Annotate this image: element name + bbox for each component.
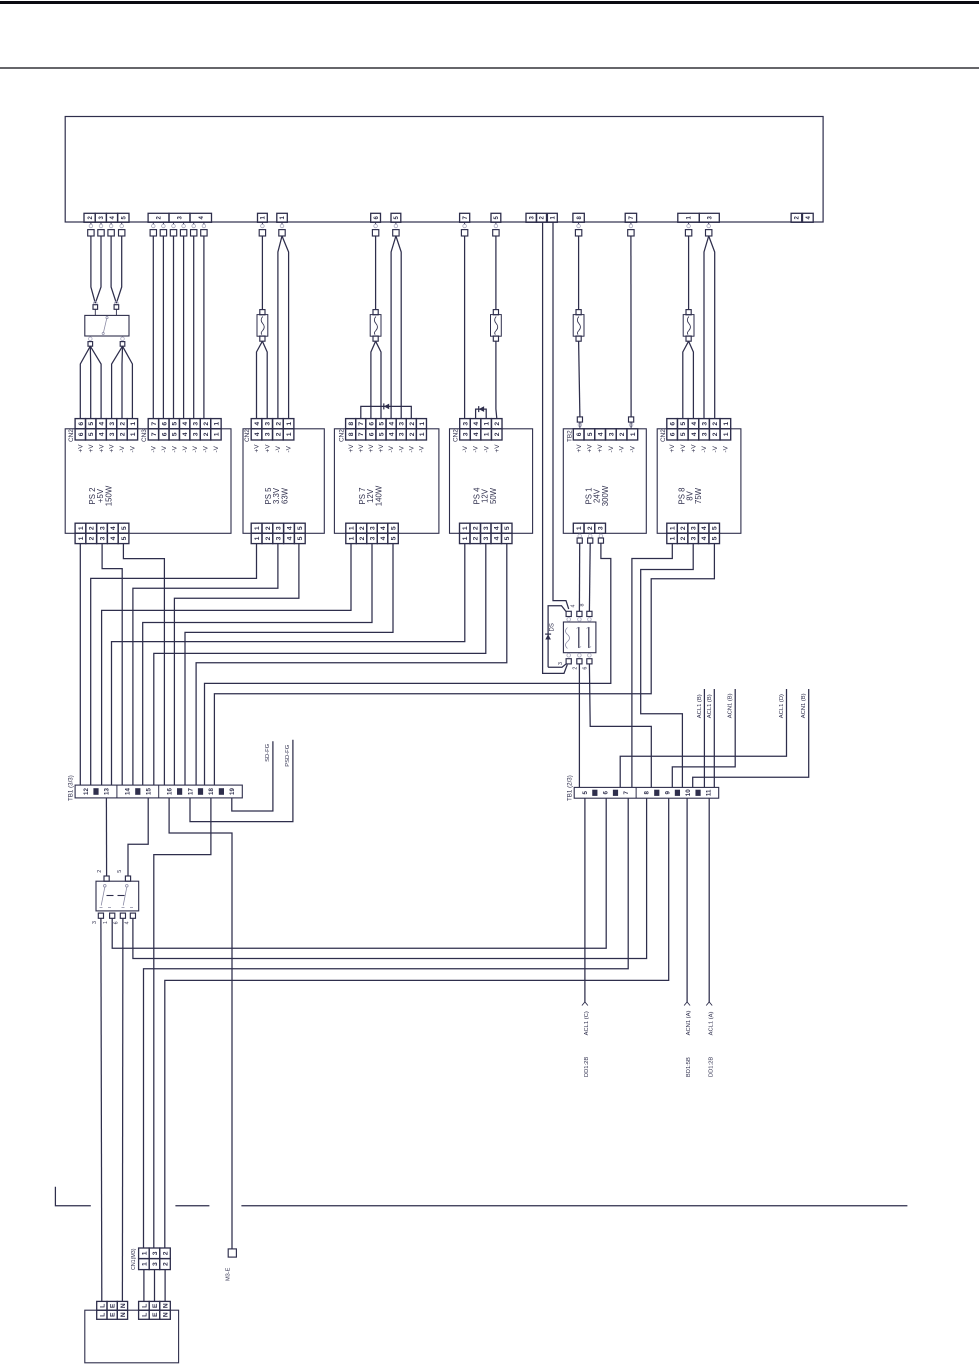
wire relay K1 to TB1 terminal 8	[589, 664, 651, 788]
PS7 output connector	[346, 523, 357, 533]
svg-text:+V: +V	[98, 444, 105, 453]
wire fuse F1 to PS1 TB2 pin 6	[579, 341, 580, 417]
svg-text:-V: -V	[608, 445, 615, 452]
connector CN1(M3)	[139, 1248, 150, 1259]
svg-text:13: 13	[104, 788, 111, 795]
svg-text:SD-FG: SD-FG	[265, 743, 271, 762]
svg-text:3: 3	[558, 662, 564, 665]
svg-text:2: 2	[89, 526, 96, 530]
wire TB1 terminal 16 to connector M3-E	[169, 798, 232, 1249]
switch S1	[96, 881, 139, 911]
relay DS	[563, 622, 596, 653]
svg-text:ACL1 (B): ACL1 (B)	[697, 694, 703, 718]
wire switch S1 pin 1 to TB1 terminal 6	[112, 798, 606, 948]
svg-text:4: 4	[99, 432, 106, 436]
svg-text:11: 11	[706, 789, 713, 796]
svg-text:-V: -V	[203, 445, 210, 452]
svg-text:2: 2	[473, 526, 480, 530]
svg-text:4: 4	[701, 536, 708, 540]
svg-text:2: 2	[275, 422, 282, 426]
svg-text:6: 6	[161, 432, 168, 436]
PS4 connector CN2	[460, 419, 471, 429]
svg-text:3: 3	[369, 536, 376, 540]
svg-text:1: 1	[670, 536, 677, 540]
svg-text:5: 5	[378, 432, 385, 436]
svg-text:9: 9	[664, 791, 671, 795]
relay DS bottom pins	[567, 654, 571, 658]
svg-text:-V: -V	[151, 445, 158, 452]
svg-text:+V: +V	[88, 444, 95, 453]
svg-text:3: 3	[691, 526, 698, 530]
svg-text:4: 4	[389, 432, 396, 436]
svg-text:CN2: CN2	[244, 429, 251, 442]
fuse F4	[493, 310, 498, 315]
svg-text:L: L	[99, 1313, 106, 1317]
svg-text:-V: -V	[408, 445, 415, 452]
svg-text:CN3: CN3	[141, 429, 148, 442]
wire PS4 pin5 to TB1 terminal 17	[196, 544, 507, 786]
wire fuse F3 to PS7 CN2 +V	[371, 341, 376, 418]
svg-text:6: 6	[602, 791, 609, 795]
power supply PS 2	[65, 429, 231, 534]
svg-text:6: 6	[670, 432, 677, 436]
svg-text:-V: -V	[473, 445, 480, 452]
svg-text:6: 6	[576, 432, 583, 436]
net stub ACN1 (B) third	[693, 689, 809, 787]
svg-text:1: 1	[78, 526, 85, 530]
wire TB1 terminal 13 to switch S1 pin 2	[105, 798, 107, 876]
svg-text:2: 2	[275, 432, 282, 436]
svg-text:M3-E: M3-E	[226, 1267, 232, 1281]
wire PS1 pin3 to TB1 terminal 18	[205, 543, 611, 785]
svg-text:-V: -V	[619, 445, 626, 452]
svg-text:4: 4	[389, 422, 396, 426]
svg-text:+V: +V	[680, 444, 687, 453]
wire twisted pair to PS8 CN2 -V	[704, 236, 709, 419]
svg-text:-V: -V	[182, 445, 189, 452]
svg-text:2: 2	[162, 1251, 169, 1255]
svg-text:5: 5	[712, 536, 719, 540]
svg-text:4: 4	[124, 921, 130, 924]
svg-text:3: 3	[152, 1251, 159, 1255]
svg-text:-V: -V	[712, 445, 719, 452]
svg-text:ACL1 (C): ACL1 (C)	[584, 1011, 590, 1035]
wire J1 pin 2 to relay K1 coil return	[543, 222, 568, 673]
wire J1 pin 1 to fuse F5	[688, 236, 690, 310]
svg-text:+V: +V	[691, 444, 698, 453]
svg-text:3: 3	[702, 422, 709, 426]
svg-text:CN2: CN2	[453, 429, 460, 442]
svg-text:1: 1	[348, 536, 355, 540]
wire J1 pin 7 to PS1 TB2 pin 1	[630, 236, 632, 417]
power supply PS 1	[563, 429, 646, 534]
svg-text:E: E	[152, 1312, 159, 1317]
svg-text:4: 4	[473, 422, 480, 426]
svg-text:4: 4	[182, 422, 189, 426]
wire J1 pin 1 to fuse F2	[261, 236, 263, 310]
svg-text:ACN1 (B): ACN1 (B)	[801, 693, 807, 718]
page header rule thick	[0, 1, 979, 4]
svg-text:18: 18	[208, 788, 215, 795]
switch S1 top pins	[104, 876, 109, 881]
svg-text:2: 2	[203, 432, 210, 436]
backplane connector J1 pin boxes	[84, 213, 813, 222]
wire CN1 to AC outlet 2	[143, 1270, 145, 1302]
wire TB1 terminal 18 junction	[154, 798, 211, 1248]
svg-text:1: 1	[130, 432, 137, 436]
svg-text:1: 1	[484, 432, 491, 436]
svg-text:-V: -V	[419, 445, 426, 452]
svg-text:1: 1	[130, 422, 137, 426]
wire PS1 pin1 to relay K1	[578, 543, 580, 611]
svg-text:3: 3	[483, 526, 490, 530]
svg-text:CN2: CN2	[68, 429, 75, 442]
PS1 terminal block TB2	[573, 429, 584, 440]
svg-text:2: 2	[162, 1262, 169, 1266]
svg-text:-V: -V	[462, 445, 469, 452]
svg-text:1: 1	[723, 422, 730, 426]
AC outlet 2 terminals L E N	[139, 1301, 150, 1310]
svg-text:16: 16	[166, 788, 173, 795]
svg-text:6: 6	[670, 422, 677, 426]
relay coil suppression diode loop	[548, 606, 566, 667]
svg-text:+V: +V	[669, 444, 676, 453]
svg-text:3: 3	[152, 1262, 159, 1266]
svg-text:2: 2	[265, 526, 272, 530]
net stub ACL1 (B) second	[713, 689, 715, 787]
PS5 output connector	[251, 523, 262, 533]
power supply PS 5	[243, 429, 324, 534]
PS7 connector CN2	[346, 419, 356, 429]
crimp splice terminals above filter	[94, 301, 98, 305]
svg-text:1: 1	[670, 526, 677, 530]
svg-text:ACL1 (D): ACL1 (D)	[779, 694, 785, 718]
svg-text:2: 2	[409, 432, 416, 436]
svg-text:TB1 (2/3): TB1 (2/3)	[567, 775, 574, 801]
svg-text:6: 6	[78, 422, 85, 426]
svg-text:1: 1	[348, 526, 355, 530]
svg-text:+V: +V	[586, 444, 593, 453]
wire TB1 terminal 10 to ACN1 (A)	[686, 798, 688, 1002]
svg-text:1: 1	[286, 432, 293, 436]
svg-text:4: 4	[691, 432, 698, 436]
svg-text:-V: -V	[629, 445, 636, 452]
PS4 output connector	[460, 523, 471, 533]
wire J1 pin 1 to relay K1 coil	[553, 222, 569, 609]
svg-text:L: L	[99, 1304, 106, 1308]
wire twisted pair to PS7 CN2 -V	[391, 236, 396, 419]
wire twisted pair to PS5 CN2 -V	[278, 236, 282, 419]
fuse F5	[686, 310, 691, 315]
svg-text:1: 1	[419, 432, 426, 436]
svg-text:3: 3	[193, 422, 200, 426]
fuse F3	[373, 310, 378, 315]
svg-text:4: 4	[110, 536, 117, 540]
svg-text:4: 4	[701, 526, 708, 530]
wire J1 pin 6 to fuse F3	[375, 236, 377, 310]
wire PS8 pin3 to TB1 terminal 10	[641, 543, 694, 787]
svg-text:2: 2	[712, 432, 719, 436]
svg-text:2: 2	[494, 432, 501, 436]
fuse F2	[260, 310, 265, 315]
svg-text:1: 1	[419, 422, 426, 426]
svg-text:5: 5	[680, 422, 687, 426]
svg-text:3: 3	[276, 526, 283, 530]
svg-text:2: 2	[265, 536, 272, 540]
svg-text:5: 5	[172, 422, 179, 426]
svg-text:ACL1 (A): ACL1 (A)	[708, 1011, 714, 1035]
svg-text:1: 1	[103, 921, 109, 924]
svg-text:N: N	[162, 1312, 169, 1317]
svg-text:ACN1 (B): ACN1 (B)	[728, 693, 734, 718]
svg-text:3: 3	[399, 422, 406, 426]
wire PS7 pin5 to TB1 terminal 17	[185, 544, 393, 786]
diode CR1	[545, 634, 551, 639]
svg-text:4: 4	[254, 422, 261, 426]
relay DS top pins	[566, 611, 571, 616]
page header rule thin	[0, 67, 979, 69]
svg-text:5: 5	[390, 536, 397, 540]
svg-text:2: 2	[89, 536, 96, 540]
svg-text:6: 6	[114, 921, 120, 924]
wire J1 pin 5 to fuse F4	[495, 236, 497, 310]
svg-text:3: 3	[276, 536, 283, 540]
svg-text:7: 7	[151, 432, 158, 436]
svg-text:1: 1	[213, 422, 220, 426]
svg-text:6: 6	[78, 432, 85, 436]
svg-text:2: 2	[119, 422, 126, 426]
wire CN1 pin 2 to TB1 terminal 9	[165, 798, 669, 1248]
svg-text:4: 4	[182, 432, 189, 436]
svg-text:3: 3	[462, 432, 469, 436]
svg-text:4: 4	[99, 422, 106, 426]
svg-text:-V: -V	[192, 445, 199, 452]
svg-text:-V: -V	[398, 445, 405, 452]
svg-text:5: 5	[390, 526, 397, 530]
power supply PS 7	[334, 429, 439, 534]
svg-text:DD1:2B: DD1:2B	[584, 1057, 590, 1077]
svg-text:-V: -V	[286, 445, 293, 452]
wire fuse F5 to PS8 CN2 +V	[683, 341, 689, 418]
svg-text:1: 1	[576, 526, 583, 530]
svg-text:150W: 150W	[104, 485, 113, 506]
jumper with diode across PS7 CN2 pins 7-2	[361, 406, 412, 418]
PS8 output connector	[667, 523, 678, 533]
svg-text:TB2: TB2	[566, 430, 573, 442]
svg-text:6: 6	[582, 667, 588, 670]
svg-text:4: 4	[286, 526, 293, 530]
wire J1 pin 8 to fuse F1	[578, 236, 580, 310]
net stub ACL1 (D)	[620, 689, 786, 787]
svg-text:2: 2	[97, 870, 103, 873]
svg-text:E: E	[110, 1303, 117, 1308]
svg-text:3: 3	[92, 921, 98, 924]
connector pin terminals	[88, 224, 712, 236]
svg-text:2: 2	[473, 536, 480, 540]
PS2 connector CN2	[75, 419, 85, 429]
svg-text:15: 15	[145, 788, 152, 795]
svg-text:1: 1	[141, 1251, 148, 1255]
wire J1 pins 2-5 to filter	[91, 236, 95, 303]
sheet divider line	[55, 1187, 90, 1206]
svg-text:4: 4	[110, 526, 117, 530]
svg-text:3: 3	[598, 526, 605, 530]
wire PS4 pin1 to TB1 terminal 13	[112, 544, 465, 786]
svg-text:DD1:2B: DD1:2B	[708, 1057, 714, 1077]
svg-text:-V: -V	[701, 445, 708, 452]
wire PS2 pin1 to TB1 terminal 12	[79, 544, 81, 786]
svg-text:17: 17	[187, 788, 194, 795]
wire J1 group to PS2 CN3	[152, 236, 154, 419]
svg-text:ACN1 (A): ACN1 (A)	[686, 1011, 692, 1036]
svg-text:BD1:5B: BD1:5B	[686, 1057, 692, 1077]
svg-text:7: 7	[358, 432, 365, 436]
svg-text:L: L	[141, 1304, 148, 1308]
svg-text:8: 8	[348, 422, 355, 426]
svg-text:2: 2	[119, 432, 126, 436]
svg-text:4: 4	[570, 605, 576, 608]
svg-text:CN1(M3): CN1(M3)	[131, 1248, 137, 1270]
svg-text:4: 4	[494, 536, 501, 540]
svg-text:4: 4	[691, 422, 698, 426]
PS1 output connector	[573, 523, 584, 533]
svg-text:L: L	[141, 1313, 148, 1317]
svg-text:-V: -V	[119, 445, 126, 452]
svg-text:CN2: CN2	[660, 429, 667, 442]
wire TB1 terminal 5 to ACL1 (C)	[584, 798, 586, 1002]
svg-text:+V: +V	[254, 444, 261, 453]
crimp splice terminals below filter	[89, 337, 93, 341]
svg-text:PSD-FG: PSD-FG	[285, 744, 291, 766]
svg-text:ACL1 (B): ACL1 (B)	[707, 694, 713, 718]
svg-text:5: 5	[172, 432, 179, 436]
svg-text:6: 6	[368, 422, 375, 426]
svg-text:+V: +V	[358, 444, 365, 453]
wire PS1 pin2 to relay K1	[588, 543, 591, 611]
PS8 connector CN2	[667, 419, 678, 429]
wire PS5 pin1 to TB1 terminal 12	[91, 544, 257, 786]
system unit outline	[65, 117, 823, 223]
svg-text:+V: +V	[494, 444, 501, 453]
svg-text:2: 2	[359, 536, 366, 540]
wire fuse F2 to PS5 CN2 +V	[257, 341, 263, 418]
svg-text:7: 7	[358, 422, 365, 426]
fuse F1	[576, 310, 581, 315]
svg-text:300W: 300W	[601, 485, 610, 506]
svg-text:+V: +V	[368, 444, 375, 453]
power supply PS 8	[657, 429, 741, 534]
svg-text:TB1 (3/3): TB1 (3/3)	[68, 775, 75, 801]
net stub ACL1 (B)	[703, 689, 705, 787]
svg-text:3: 3	[265, 422, 272, 426]
wire fuse F4 to PS4 CN2 pin 2	[495, 341, 497, 409]
svg-text:-V: -V	[722, 445, 729, 452]
svg-text:-V: -V	[275, 445, 282, 452]
svg-text:2: 2	[572, 667, 578, 670]
wire switch S1 pin 4 to TB1 terminal 8	[133, 798, 647, 958]
svg-text:-V: -V	[388, 445, 395, 452]
wire PS8 pin1 to TB1 terminal 7	[632, 543, 672, 787]
wire switch S1 pin 3 to AC outlet L	[100, 918, 103, 1301]
svg-text:+V: +V	[109, 444, 116, 453]
svg-text:1: 1	[254, 536, 261, 540]
TB1 left terminals 12-19	[83, 785, 236, 798]
svg-text:50W: 50W	[489, 487, 498, 504]
terminal M3-E	[228, 1249, 236, 1257]
svg-text:5: 5	[504, 536, 511, 540]
svg-text:1: 1	[78, 536, 85, 540]
svg-text:2: 2	[680, 526, 687, 530]
PS2 connector CN3	[148, 419, 158, 429]
AC outlet 1 terminals L E N	[97, 1301, 107, 1310]
svg-text:5: 5	[504, 526, 511, 530]
svg-text:5: 5	[88, 432, 95, 436]
svg-text:-V: -V	[171, 445, 178, 452]
svg-text:5: 5	[121, 536, 128, 540]
svg-text:3: 3	[462, 422, 469, 426]
svg-text:3: 3	[702, 432, 709, 436]
wire PS5 pin3 to TB1 terminal 14	[133, 544, 278, 786]
svg-text:+V: +V	[348, 444, 355, 453]
svg-text:6: 6	[161, 422, 168, 426]
wire TB1 terminal 17 to PSD-FG	[190, 740, 293, 822]
switch S1 bottom pins	[98, 913, 103, 918]
svg-text:3: 3	[608, 432, 615, 436]
svg-text:DS: DS	[550, 623, 556, 631]
wire relay K1 to TB1 terminal 5	[578, 664, 580, 788]
svg-text:8: 8	[348, 432, 355, 436]
svg-text:E: E	[152, 1303, 159, 1308]
svg-text:CN2: CN2	[339, 429, 346, 442]
svg-text:-V: -V	[483, 445, 490, 452]
svg-text:4: 4	[598, 432, 605, 436]
terminal block TB1 (3/3)	[75, 785, 242, 798]
svg-text:2: 2	[494, 422, 501, 426]
svg-text:1: 1	[462, 536, 469, 540]
PS2 output connector	[75, 523, 86, 533]
svg-text:5: 5	[582, 791, 589, 795]
TB1 right terminals 5-11	[582, 787, 713, 798]
svg-text:3: 3	[691, 536, 698, 540]
svg-text:3: 3	[483, 536, 490, 540]
svg-text:140W: 140W	[374, 485, 383, 506]
svg-text:1: 1	[484, 422, 491, 426]
wire PS7 pin3 to TB1 terminal 15	[143, 544, 372, 786]
svg-text:5: 5	[378, 422, 385, 426]
svg-text:12: 12	[83, 788, 90, 795]
svg-text:N: N	[162, 1303, 169, 1308]
svg-text:3: 3	[369, 526, 376, 530]
line filter FL1	[85, 315, 129, 336]
svg-text:8: 8	[644, 791, 651, 795]
svg-text:1: 1	[213, 432, 220, 436]
svg-text:4: 4	[254, 432, 261, 436]
svg-text:5: 5	[587, 432, 594, 436]
svg-text:1: 1	[286, 422, 293, 426]
wire PS8 pin5 to TB1 terminal 18	[214, 543, 714, 785]
svg-text:6: 6	[368, 432, 375, 436]
wire PS4 pin3 to TB1 terminal 15	[154, 544, 486, 786]
wire pin stubs	[91, 222, 709, 224]
svg-text:-V: -V	[161, 445, 168, 452]
svg-text:3: 3	[399, 432, 406, 436]
svg-text:8: 8	[580, 604, 586, 607]
svg-text:+V: +V	[378, 444, 385, 453]
svg-text:2: 2	[409, 422, 416, 426]
svg-text:7: 7	[151, 422, 158, 426]
power supply PS 4	[450, 429, 533, 534]
wire PS2 pin5 to TB1 terminal 16	[123, 544, 164, 786]
